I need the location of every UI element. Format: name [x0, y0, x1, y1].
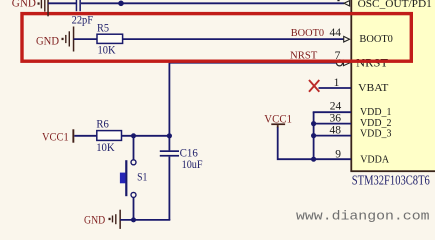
svg-text:www.diangon.com: www.diangon.com — [296, 208, 430, 223]
switch S1 — [120, 160, 136, 198]
wire VDD_3 pin 48 — [314, 135, 351, 137]
ground symbol (bottom) — [84, 210, 121, 229]
U1 pin NRST bubble — [337, 60, 343, 66]
svg-text:24: 24 — [330, 100, 342, 112]
wire R5 to BOOT0 pin — [123, 38, 344, 40]
svg-text:10uF: 10uF — [182, 159, 203, 171]
U1 pin arrow BOOT0 (input, points right) — [344, 36, 350, 42]
junction dot VDD_3 — [311, 133, 316, 138]
no-connect red X on VBAT — [309, 80, 319, 92]
svg-text:VDDA: VDDA — [360, 154, 389, 166]
annotation red highlight box — [22, 14, 411, 62]
ground symbol (R5 row) — [36, 27, 74, 52]
svg-text:C16: C16 — [180, 148, 198, 160]
svg-text:36: 36 — [330, 113, 342, 125]
wire NRST vertical (node to R6/S1/C16) — [168, 63, 170, 136]
svg-text:GND: GND — [12, 0, 36, 9]
svg-text:NRST: NRST — [356, 58, 388, 70]
power symbol VCC1 (left) — [42, 129, 74, 143]
svg-text:S1: S1 — [137, 172, 148, 184]
wire C16 to ground row — [168, 157, 170, 220]
wire VCC1 to R6 — [74, 135, 97, 137]
svg-text:OSC_OUT/PD1: OSC_OUT/PD1 — [358, 0, 432, 10]
svg-text:GND: GND — [84, 214, 105, 226]
IC U1 STM32F103C8T6 body — [350, 0, 435, 172]
resistor R5 — [97, 34, 123, 43]
pin 5 number remnant — [337, 0, 339, 1]
capacitor C16 plates — [160, 150, 179, 156]
svg-text:STM32F103C8T6: STM32F103C8T6 — [352, 174, 430, 189]
svg-text:BOOT0: BOOT0 — [359, 33, 393, 45]
wire VDD bus vertical — [313, 112, 315, 159]
wire S1 to ground row — [133, 197, 135, 220]
svg-text:1: 1 — [334, 77, 340, 89]
svg-text:VCC1: VCC1 — [42, 129, 69, 143]
junction dot S1/ground — [131, 217, 136, 222]
wire ground to 22pF capacitor — [48, 2, 76, 4]
wire VDD_1 pin 24 — [313, 111, 351, 113]
svg-text:GND: GND — [36, 36, 59, 48]
wire 22pF capacitor to OSC_OUT pin — [81, 2, 344, 4]
U1 pin arrow NRST (points right) — [344, 60, 350, 66]
svg-text:R5: R5 — [97, 22, 109, 34]
U1 pin arrow OSC_OUT (output, points left) — [344, 1, 350, 6]
wire VBAT — [319, 87, 352, 89]
svg-text:9: 9 — [335, 148, 341, 160]
svg-text:22pF: 22pF — [72, 15, 94, 27]
svg-text:48: 48 — [330, 125, 342, 137]
resistor R6 — [97, 131, 122, 141]
wire node to C16 — [168, 136, 170, 151]
wire R6 to NRST node — [122, 135, 170, 137]
wire VDD_2 pin 36 — [314, 123, 351, 125]
svg-text:VBAT: VBAT — [358, 82, 389, 94]
junction dot VDDA — [311, 157, 316, 162]
wire ground row — [120, 219, 170, 221]
wire ground to R5 — [74, 38, 98, 40]
wire NRST horizontal — [169, 62, 336, 64]
junction dot NRST node — [167, 133, 172, 138]
wire node to S1 — [133, 136, 135, 160]
svg-text:44: 44 — [330, 27, 342, 39]
capacitor 22pF plates — [76, 0, 81, 11]
wire VCC1 down to VDDA row — [278, 127, 314, 159]
power symbol VCC1 (right) — [264, 111, 292, 127]
junction dot on OSC_OUT wire — [118, 1, 124, 7]
svg-text:R6: R6 — [96, 119, 109, 131]
svg-text:BOOT0: BOOT0 — [291, 27, 325, 39]
ground symbol (top row) — [12, 0, 49, 16]
svg-text:10K: 10K — [98, 45, 117, 57]
wire VDDA pin 9 — [314, 158, 351, 160]
junction dot S1 branch — [131, 133, 136, 138]
svg-text:10K: 10K — [96, 142, 115, 154]
junction dot VDD_2 — [311, 121, 316, 126]
svg-text:VCC1: VCC1 — [264, 111, 292, 125]
svg-text:VDD_3: VDD_3 — [360, 128, 392, 140]
